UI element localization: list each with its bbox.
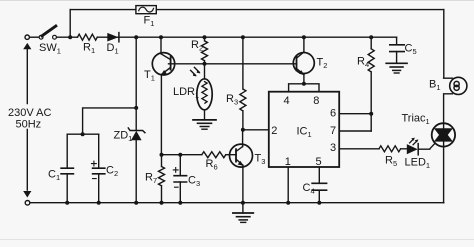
junction R4 top on rail [369, 35, 373, 39]
capacitor C2 [92, 134, 105, 203]
LDR1 [191, 64, 213, 110]
node R2 / LDR1 / T1-T2 base [203, 62, 207, 66]
ground (LDR) [193, 110, 216, 129]
230V AC source line [26, 46, 28, 190]
svg-text:4: 4 [284, 95, 290, 107]
junction ZD1 branch on rail [134, 35, 138, 39]
wire right drop through B1 to triac and bottom [444, 10, 453, 203]
wire main rail y=37.2 [56, 36, 396, 38]
wire left riser to main rail [69, 10, 71, 38]
junction C1 on bottom rail [65, 201, 69, 205]
junction T1 collector on rail [159, 35, 163, 39]
ground (C5) [386, 63, 407, 73]
wire switch link [29, 36, 39, 38]
capacitor C4 [312, 167, 327, 203]
transistor T1 [152, 37, 174, 155]
junction pin1 on bottom rail [286, 201, 290, 205]
arrow source bottom [23, 191, 31, 198]
buzzer B1 [450, 77, 467, 94]
svg-text:50Hz: 50Hz [16, 119, 42, 131]
junction ZD1 on bottom rail [134, 201, 138, 205]
resistor R2 [202, 37, 208, 64]
svg-text:Triac1: Triac1 [402, 113, 430, 127]
fuse F1 [136, 6, 156, 14]
junction C3 on bottom rail [178, 201, 182, 205]
node terminal top [25, 35, 29, 39]
wire bottom rail [30, 202, 444, 204]
wire top rail [70, 9, 444, 11]
svg-text:6: 6 [330, 108, 336, 120]
transistor T2 [293, 37, 314, 84]
node T1 emitter / R7 / R6 [160, 153, 164, 157]
resistor R5 [379, 146, 407, 152]
svg-text:8: 8 [313, 95, 319, 107]
junction C4 / pin5 on bottom rail [317, 201, 321, 205]
switch SW1 [39, 26, 56, 39]
resistor R7 [159, 155, 165, 203]
wire pin3 to R5 [339, 148, 379, 150]
junction R7 on bottom rail [160, 201, 164, 205]
resistor R1 [78, 34, 98, 40]
junction riser / switched-line rail [68, 35, 72, 39]
resistor R6 [162, 152, 237, 158]
svg-text:1: 1 [285, 156, 291, 168]
junction C1-C2 riser [81, 132, 85, 136]
resistor R4 [368, 37, 374, 131]
junction T2 collector on rail [302, 35, 306, 39]
svg-text:7: 7 [330, 125, 336, 137]
svg-text:5: 5 [316, 156, 322, 168]
junction ZD1 / filter branch [134, 106, 138, 110]
wire pin6 [339, 113, 371, 115]
triac Triac1 [432, 123, 455, 146]
junction R2 top on rail [203, 35, 207, 39]
wire base line T1 to T2 [169, 63, 297, 65]
ground (bottom rail) [233, 203, 253, 223]
wire C1 C2 filter branch [67, 108, 136, 134]
node T2 emitter / pins 4-8 [302, 82, 306, 86]
wire ZD1 branch from rail [135, 37, 137, 203]
node pin6 / R4 [369, 112, 373, 116]
svg-text:230V AC: 230V AC [8, 107, 51, 119]
capacitor C3 [173, 155, 186, 203]
svg-text:2: 2 [271, 125, 277, 137]
transistor T3 [230, 130, 253, 203]
wire pin2 [243, 129, 269, 131]
wire pin7 [339, 130, 371, 132]
capacitor C5 [390, 37, 404, 63]
node R3 / pin2 / T3 collector [241, 128, 245, 132]
IC1 box [269, 92, 339, 167]
resistor R3 [240, 37, 246, 130]
junction T3 emitter / ground on bottom rail [241, 201, 245, 205]
LED1 [407, 138, 435, 155]
wire pin1 [287, 167, 289, 203]
node terminal bottom [25, 201, 30, 206]
zener ZD1 [128, 128, 145, 140]
wire pin4 pin8 bridge [289, 84, 319, 92]
arrow source top [23, 43, 31, 49]
svg-text:3: 3 [330, 142, 336, 154]
capacitor C1 [61, 134, 73, 203]
junction R3 top on rail [241, 35, 245, 39]
diode D1 [107, 33, 119, 42]
node C3 top [178, 153, 182, 157]
junction C2 on bottom rail [97, 201, 101, 205]
